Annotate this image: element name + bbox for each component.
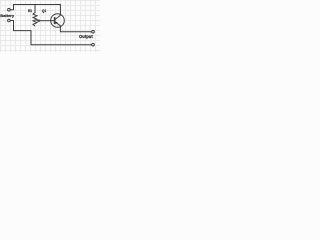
- svg-text:Q1: Q1: [42, 9, 46, 13]
- svg-text:Battery: Battery: [0, 13, 15, 18]
- svg-text:R1: R1: [28, 9, 32, 13]
- svg-text:Output: Output: [79, 34, 93, 39]
